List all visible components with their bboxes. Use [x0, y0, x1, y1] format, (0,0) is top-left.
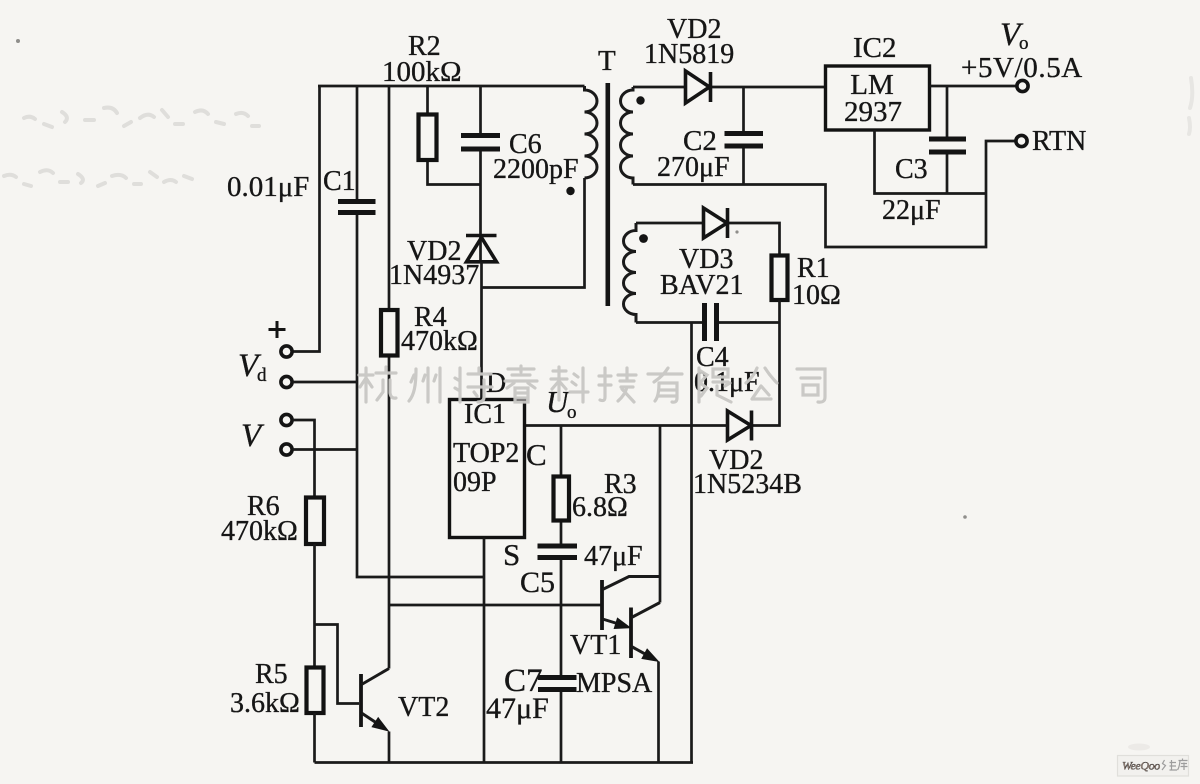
wire VT1 collector branch [659, 426, 662, 603]
resistor R4 [381, 310, 398, 356]
svg-text:BAV21: BAV21 [660, 270, 744, 301]
label C4 value [694, 342, 760, 398]
svg-text:270μF: 270μF [657, 152, 730, 183]
label RTN [1032, 126, 1086, 157]
paper artifacts [4, 78, 1192, 186]
label VT1 MPSA [570, 630, 653, 699]
transformer T secondary winding 2 [623, 223, 636, 323]
wire zener to IC1 C pin [525, 424, 728, 427]
svg-text:3.6kΩ: 3.6kΩ [230, 688, 300, 719]
label V [241, 418, 265, 454]
label Vd [238, 348, 267, 386]
terminal V- [281, 444, 292, 455]
svg-text:10Ω: 10Ω [792, 280, 841, 311]
wire VT2 collector node [390, 604, 602, 607]
wire C3 branch [946, 86, 949, 194]
terminal Vd+ [281, 346, 292, 357]
IC2 LM2937 [826, 66, 930, 130]
terminal Vd- [281, 376, 292, 387]
wire top DC rail [318, 85, 585, 88]
svg-text:2200pF: 2200pF [493, 154, 579, 185]
svg-text:1N5819: 1N5819 [644, 39, 734, 70]
wire R3 branch [560, 426, 563, 763]
svg-text:2937: 2937 [844, 96, 902, 128]
diode VD2 1N5819 [686, 71, 711, 103]
label IC2 [844, 32, 902, 128]
diode VD3 BAV21 [704, 208, 728, 238]
label VD2 1N5234B [693, 445, 802, 500]
wire R1 bottom [778, 300, 781, 323]
svg-text:1N4937: 1N4937 [389, 260, 479, 291]
resistor R1 [772, 256, 788, 301]
label VD3 BAV21 [660, 244, 744, 301]
node + polarity mark [269, 321, 286, 338]
label R6 value [221, 491, 298, 547]
pin S label [503, 537, 520, 572]
wire C2 branch [742, 87, 745, 185]
label C1 [227, 166, 356, 203]
label T [598, 45, 616, 77]
wire Vd- to C1 line [293, 381, 358, 384]
svg-text:TOP2: TOP2 [453, 438, 519, 469]
zener VD2 1N5234B [728, 411, 752, 441]
label C5 value [520, 541, 643, 599]
svg-text:C1: C1 [323, 166, 356, 197]
label IC1 TOP209P [453, 399, 519, 498]
resistor R5 [307, 668, 324, 714]
svg-text:47μF: 47μF [584, 541, 643, 572]
resistor R6 [306, 498, 324, 545]
wire R4 branch [388, 86, 391, 669]
wire R6 to R5 [313, 544, 316, 668]
label C3 value [882, 154, 941, 226]
wire Vd+ to rail [293, 86, 320, 352]
svg-text:WeeQoo: WeeQoo [1122, 759, 1160, 773]
svg-text:IC1: IC1 [464, 399, 506, 430]
svg-text:6.8Ω: 6.8Ω [572, 492, 628, 523]
svg-text:47μF: 47μF [486, 692, 549, 725]
svg-text:09P: 09P [453, 467, 497, 498]
wire C6 branch [479, 86, 482, 262]
label R2 value [382, 31, 462, 88]
svg-text:470kΩ: 470kΩ [401, 326, 478, 357]
svg-text:d: d [257, 365, 267, 386]
wire IC1 S pin [483, 538, 486, 763]
svg-text:100kΩ: 100kΩ [382, 56, 462, 88]
secondary 1 phase dot [636, 96, 644, 104]
transistor VT2 [361, 669, 389, 763]
capacitor C4 [705, 303, 717, 341]
wire V- to C1 line [293, 448, 358, 451]
resistor R2 [419, 115, 437, 161]
label R3 value [572, 469, 637, 523]
svg-text:T: T [598, 45, 616, 77]
svg-text:VT2: VT2 [398, 692, 449, 723]
capacitor C2 [725, 134, 764, 147]
terminal RTN [1016, 135, 1027, 146]
wire feedback drop [752, 323, 780, 426]
svg-text:+5V/0.5A: +5V/0.5A [961, 52, 1083, 84]
terminal V+ [281, 414, 292, 425]
wire bottom ground rail [315, 761, 694, 764]
label R1 value [792, 253, 841, 311]
svg-text:o: o [567, 402, 577, 423]
wire secondary 1 top [633, 86, 826, 89]
wire R5 to ground rail [313, 713, 316, 763]
WeeQoo corner mark [1118, 744, 1189, 777]
svg-text:1N5234B: 1N5234B [693, 469, 802, 500]
label Vo [961, 17, 1083, 84]
secondary 2 phase dot [639, 234, 648, 243]
capacitor C3 [929, 139, 966, 152]
label C7 value [486, 663, 549, 725]
transformer T secondary winding 1 [621, 87, 634, 185]
label R4 value [401, 302, 478, 357]
wire Vo output [930, 85, 1018, 88]
svg-text:IC2: IC2 [853, 32, 897, 64]
wire ground drop [690, 323, 693, 763]
resistor R3 [554, 477, 570, 521]
pin D label [486, 368, 506, 399]
pin C label [526, 437, 547, 472]
svg-text:MPSA: MPSA [576, 668, 653, 699]
svg-text:C5: C5 [520, 566, 555, 599]
capacitor C1 [338, 202, 376, 213]
IC1 TOP209P [450, 400, 525, 538]
terminal Vo [1017, 80, 1028, 91]
wire secondary 1 return [633, 141, 1017, 247]
label C6 value [493, 129, 579, 185]
svg-text:o: o [1019, 33, 1029, 54]
wire secondary 2 top [636, 223, 780, 256]
wire C1 branch [357, 86, 484, 577]
svg-text:VT1: VT1 [570, 630, 621, 661]
label R5 value [230, 659, 300, 719]
transformer core [606, 83, 611, 306]
primary phase dot [566, 187, 574, 195]
svg-text:C: C [526, 437, 547, 472]
wire V+ to R6 [293, 420, 315, 498]
capacitor C6 [461, 136, 500, 150]
transformer T primary winding [585, 86, 598, 178]
svg-text:0.01μF: 0.01μF [227, 171, 309, 203]
wire VD2 anode to IC1 D pin [480, 262, 483, 400]
wire clamp to primary bottom [482, 178, 585, 288]
label VT2 [398, 692, 449, 723]
svg-text:RTN: RTN [1032, 126, 1086, 157]
wire R2 branch [428, 86, 481, 185]
svg-text:C3: C3 [895, 154, 928, 185]
wire VT2 base tap [315, 625, 360, 704]
wire secondary 2 bottom [636, 321, 780, 324]
wire IC2 ground pin [875, 130, 987, 194]
label VD2 1N4937 [389, 236, 479, 291]
svg-text:470kΩ: 470kΩ [221, 516, 298, 547]
svg-text:22μF: 22μF [882, 195, 941, 226]
svg-text:R5: R5 [255, 659, 288, 690]
label VD2 1N5819 [644, 14, 734, 70]
diode VD2 1N4937 [466, 236, 497, 262]
capacitor C7 [538, 678, 577, 690]
capacitor C5 [538, 546, 578, 558]
label C2 value [657, 125, 730, 183]
node Uo label [546, 384, 577, 423]
transistor VT1 darlington [602, 577, 660, 763]
svg-text:S: S [503, 537, 520, 572]
